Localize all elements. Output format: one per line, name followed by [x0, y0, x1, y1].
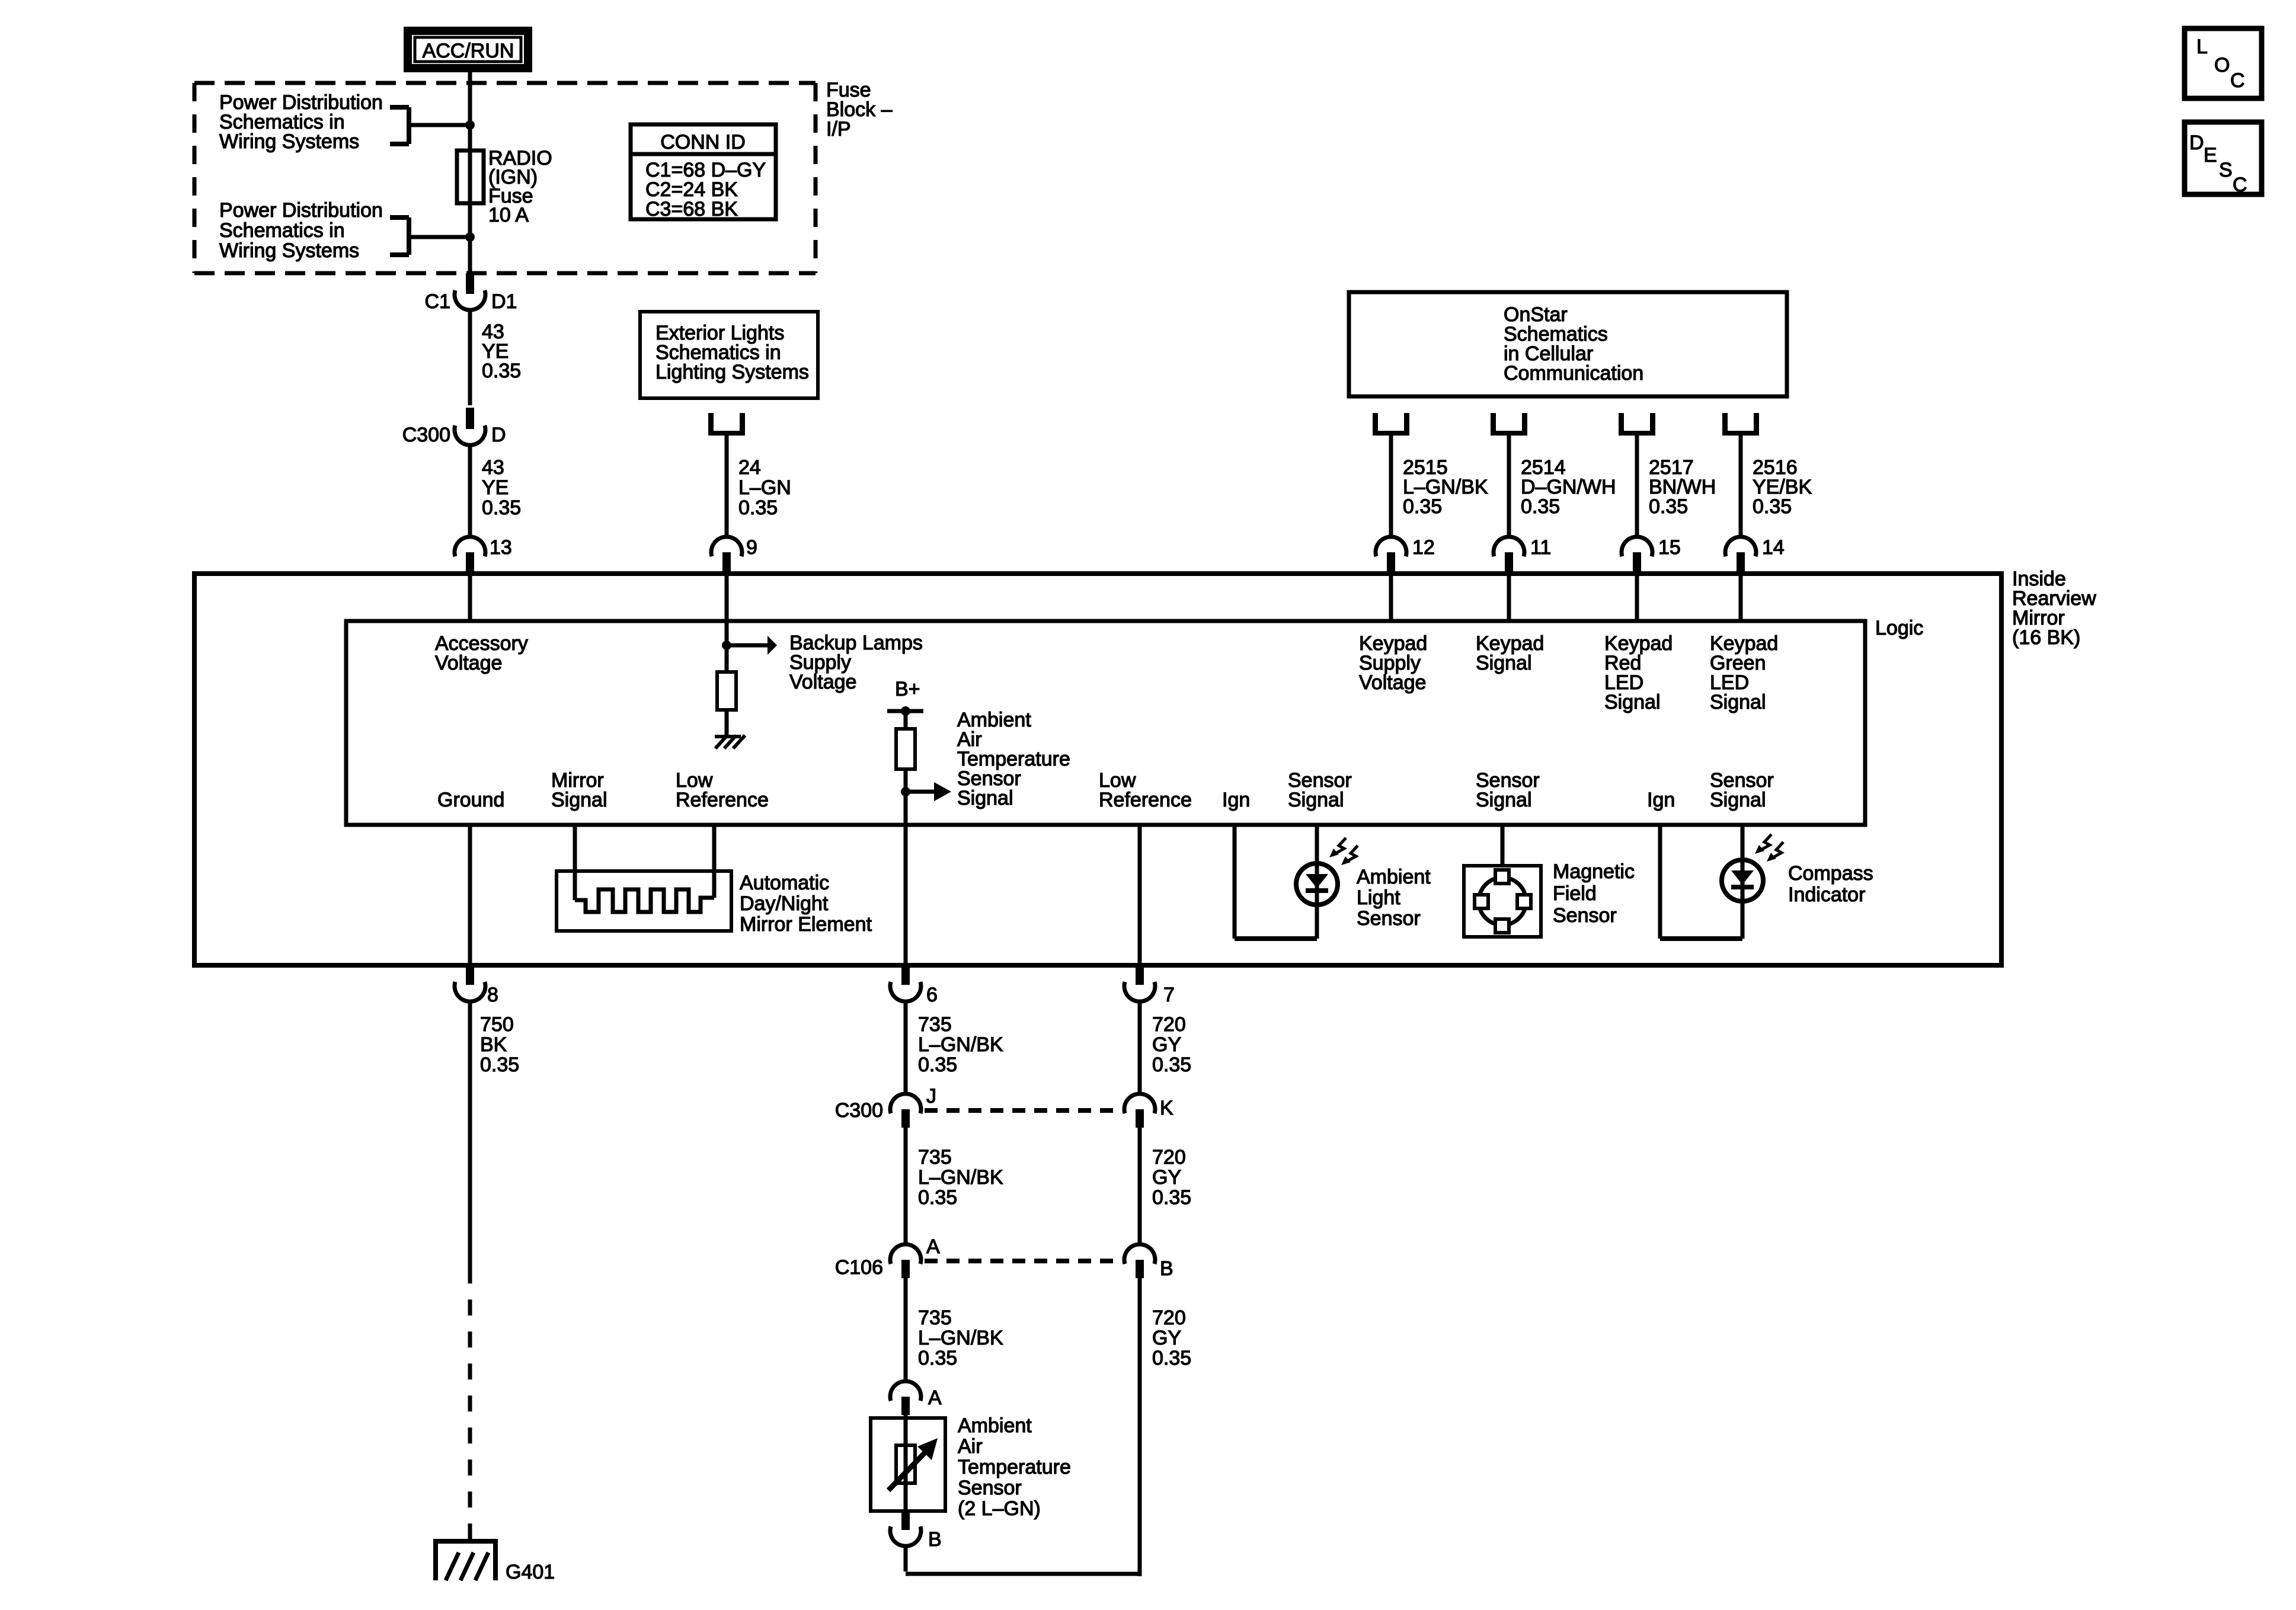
svg-text:C106: C106 — [835, 1256, 883, 1279]
svg-text:Sensor: Sensor — [958, 1477, 1022, 1499]
svg-text:BK: BK — [480, 1033, 507, 1056]
svg-text:Lighting Systems: Lighting Systems — [655, 361, 809, 383]
svg-text:Indicator: Indicator — [1788, 884, 1865, 906]
svg-text:J: J — [926, 1085, 936, 1108]
svg-text:Magnetic: Magnetic — [1553, 860, 1635, 883]
svg-text:Voltage: Voltage — [1359, 671, 1426, 694]
svg-text:24: 24 — [738, 456, 761, 479]
svg-text:720: 720 — [1152, 1146, 1186, 1169]
svg-text:B: B — [1160, 1257, 1173, 1280]
svg-text:12: 12 — [1412, 536, 1435, 559]
svg-text:CONN ID: CONN ID — [660, 131, 746, 153]
svg-text:Logic: Logic — [1875, 617, 1923, 639]
svg-text:L–GN/BK: L–GN/BK — [918, 1327, 1003, 1349]
svg-text:(2 L–GN): (2 L–GN) — [958, 1497, 1041, 1520]
svg-text:Light: Light — [1357, 886, 1400, 909]
svg-text:Field: Field — [1553, 882, 1597, 905]
svg-text:Schematics in: Schematics in — [219, 219, 345, 242]
svg-text:7: 7 — [1163, 984, 1175, 1006]
svg-text:0.35: 0.35 — [918, 1186, 957, 1209]
svg-text:ACC/RUN: ACC/RUN — [423, 40, 514, 62]
svg-text:Voltage: Voltage — [789, 671, 856, 693]
svg-text:0.35: 0.35 — [918, 1347, 957, 1369]
svg-text:735: 735 — [918, 1146, 952, 1169]
svg-text:0.35: 0.35 — [1152, 1186, 1191, 1209]
svg-text:Ign: Ign — [1647, 789, 1675, 811]
svg-text:735: 735 — [918, 1013, 952, 1036]
svg-text:0.35: 0.35 — [1753, 495, 1792, 518]
svg-text:6: 6 — [926, 984, 938, 1006]
svg-text:Power Distribution: Power Distribution — [219, 199, 383, 222]
svg-text:YE: YE — [482, 476, 509, 499]
svg-text:I/P: I/P — [826, 118, 851, 140]
svg-text:G401: G401 — [506, 1561, 555, 1583]
svg-text:A: A — [926, 1235, 940, 1258]
svg-text:GY: GY — [1152, 1033, 1181, 1056]
svg-text:C1: C1 — [425, 290, 450, 313]
svg-text:Sensor: Sensor — [1357, 907, 1421, 930]
svg-text:C: C — [2233, 174, 2247, 196]
svg-text:D: D — [2189, 132, 2204, 154]
svg-text:K: K — [1160, 1097, 1173, 1119]
svg-text:Signal: Signal — [1710, 691, 1766, 713]
svg-text:C3=68 BK: C3=68 BK — [645, 198, 738, 220]
svg-text:B: B — [928, 1528, 942, 1551]
svg-text:A: A — [928, 1387, 942, 1409]
svg-text:0.35: 0.35 — [1403, 495, 1442, 518]
svg-text:Automatic: Automatic — [740, 872, 829, 894]
svg-text:14: 14 — [1762, 536, 1785, 559]
svg-text:Air: Air — [958, 1435, 983, 1458]
svg-text:Temperature: Temperature — [958, 1456, 1071, 1478]
svg-text:750: 750 — [480, 1013, 514, 1036]
svg-text:43: 43 — [482, 456, 504, 479]
svg-text:S: S — [2219, 159, 2233, 181]
svg-text:C: C — [2230, 69, 2245, 92]
svg-text:Reference: Reference — [1099, 789, 1192, 811]
svg-text:10 A: 10 A — [488, 204, 529, 226]
svg-text:0.35: 0.35 — [738, 497, 778, 519]
svg-text:L–GN/BK: L–GN/BK — [918, 1166, 1003, 1189]
svg-text:735: 735 — [918, 1307, 952, 1329]
svg-text:GY: GY — [1152, 1327, 1181, 1349]
svg-text:0.35: 0.35 — [1521, 495, 1560, 518]
svg-text:11: 11 — [1530, 536, 1551, 559]
svg-text:Ground: Ground — [437, 789, 504, 811]
svg-text:0.35: 0.35 — [480, 1054, 519, 1076]
svg-text:Ign: Ign — [1222, 789, 1250, 811]
svg-text:0.35: 0.35 — [918, 1054, 957, 1076]
svg-text:Signal: Signal — [551, 789, 607, 811]
svg-text:C300: C300 — [402, 424, 450, 446]
svg-text:L–GN/BK: L–GN/BK — [918, 1033, 1003, 1056]
svg-text:Wiring Systems: Wiring Systems — [219, 130, 359, 153]
svg-text:Signal: Signal — [1476, 652, 1532, 674]
svg-text:720: 720 — [1152, 1307, 1186, 1329]
svg-text:D1: D1 — [491, 290, 517, 313]
svg-text:E: E — [2204, 144, 2217, 167]
svg-text:Mirror Element: Mirror Element — [740, 913, 872, 936]
svg-text:0.35: 0.35 — [1152, 1054, 1191, 1076]
svg-text:L–GN: L–GN — [738, 476, 791, 499]
svg-text:13: 13 — [490, 536, 512, 559]
svg-text:Signal: Signal — [1710, 789, 1766, 811]
svg-text:15: 15 — [1658, 536, 1681, 559]
svg-text:Signal: Signal — [1476, 789, 1532, 811]
svg-text:Day/Night: Day/Night — [740, 892, 829, 915]
svg-text:L: L — [2196, 36, 2208, 58]
svg-text:Voltage: Voltage — [435, 652, 502, 674]
svg-text:Signal: Signal — [1288, 789, 1344, 811]
svg-text:Signal: Signal — [1604, 691, 1661, 713]
svg-text:Communication: Communication — [1504, 362, 1643, 385]
svg-text:0.35: 0.35 — [482, 497, 521, 519]
svg-text:Compass: Compass — [1788, 862, 1873, 885]
svg-text:8: 8 — [487, 984, 498, 1006]
svg-text:0.35: 0.35 — [482, 360, 521, 382]
svg-text:Wiring Systems: Wiring Systems — [219, 239, 359, 262]
svg-text:Sensor: Sensor — [1553, 904, 1617, 927]
svg-text:B+: B+ — [895, 678, 920, 700]
svg-text:0.35: 0.35 — [1152, 1347, 1191, 1369]
svg-text:Ambient: Ambient — [1357, 866, 1431, 888]
svg-text:GY: GY — [1152, 1166, 1181, 1189]
svg-text:D: D — [491, 424, 506, 446]
svg-text:O: O — [2214, 54, 2230, 76]
svg-text:Reference: Reference — [676, 789, 769, 811]
svg-text:Signal: Signal — [957, 787, 1013, 809]
svg-text:(16 BK): (16 BK) — [2012, 626, 2080, 649]
svg-text:720: 720 — [1152, 1013, 1186, 1036]
svg-text:Ambient: Ambient — [958, 1414, 1032, 1437]
svg-text:9: 9 — [746, 536, 757, 559]
svg-text:C300: C300 — [835, 1099, 883, 1122]
svg-text:0.35: 0.35 — [1649, 495, 1688, 518]
